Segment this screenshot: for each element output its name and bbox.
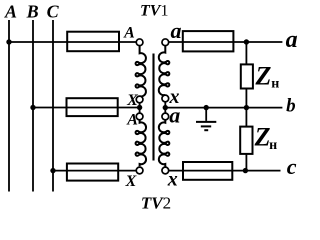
svg-text:A: A [4, 2, 17, 22]
svg-text:Z: Z [254, 123, 271, 152]
svg-text:TV1: TV1 [140, 3, 168, 20]
svg-text:X: X [126, 92, 138, 109]
svg-text:Z: Z [255, 61, 272, 90]
svg-text:B: B [26, 2, 39, 22]
svg-text:c: c [287, 154, 297, 179]
svg-text:A: A [126, 111, 138, 128]
svg-text:a: a [171, 18, 182, 43]
svg-text:a: a [169, 102, 180, 127]
svg-text:b: b [286, 96, 296, 117]
svg-text:н: н [271, 76, 279, 91]
svg-text:TV2: TV2 [141, 193, 171, 212]
svg-text:н: н [269, 138, 277, 153]
svg-text:X: X [125, 173, 137, 190]
svg-text:A: A [123, 24, 135, 41]
svg-text:C: C [47, 2, 60, 22]
svg-text:a: a [286, 27, 298, 53]
svg-text:x: x [167, 169, 178, 191]
